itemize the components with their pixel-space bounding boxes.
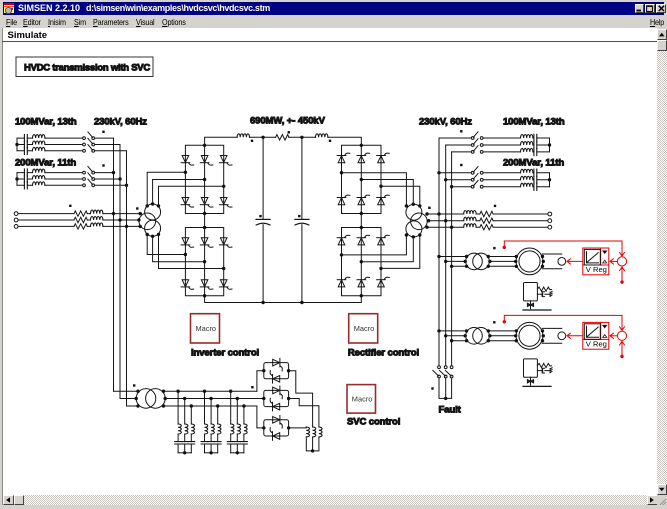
wire tcr pair3 left [257, 406, 264, 428]
node svc trf in2 [135, 397, 138, 400]
menu bar [3, 15, 664, 28]
rectifier bridge lower [337, 226, 389, 298]
filter bank 100MVar right [439, 132, 551, 156]
node mark 17 [251, 386, 253, 388]
wire phase3 upper [159, 186, 224, 206]
wire phase1 upper [147, 172, 185, 206]
node bus1 junction a right [437, 212, 440, 215]
fault switch 1 [433, 366, 441, 378]
wire phase1 lower right [342, 235, 407, 255]
node phase1 top circle right [405, 204, 408, 207]
branch 2a [204, 391, 206, 424]
wire bus2 right [445, 145, 447, 367]
svc phase line 2 [165, 398, 264, 400]
winding delta right [406, 221, 422, 237]
wire cap1 [262, 137, 264, 302]
node cap1 top [261, 136, 264, 139]
inverter bridge phase wires upper [146, 172, 224, 207]
node 2c [216, 404, 219, 407]
terminal b right [548, 219, 552, 223]
node bus3 tap 200MVar right [450, 185, 453, 188]
resistor b [74, 217, 87, 222]
wire c right [427, 226, 548, 228]
node phase2 top circle right [412, 203, 415, 206]
vertical scrollbar [657, 29, 667, 496]
wire a [18, 213, 140, 215]
svg-text:HVDC transmission with SVC: HVDC transmission with SVC [24, 63, 150, 74]
wire group1 star bar [178, 452, 191, 454]
terminal c [14, 225, 18, 229]
node mark 14 [493, 247, 495, 249]
converter transformer left [139, 204, 161, 236]
dc resistor [276, 135, 289, 140]
tcr reactor a [306, 427, 309, 437]
macro box svc control [347, 385, 376, 414]
svg-text:Inverter control: Inverter control [191, 348, 259, 359]
node svc trf out3 [162, 404, 165, 407]
right grid phase a [425, 211, 551, 217]
node 1b [183, 397, 186, 400]
inductor b right [464, 217, 476, 221]
node transformer c [139, 225, 142, 228]
title box HVDC transmission with SVC [16, 57, 153, 77]
wire phase2 lower [153, 236, 205, 261]
svg-text:Rectifier control: Rectifier control [348, 348, 419, 359]
rectifier bridge phase wires upper [342, 173, 422, 208]
svg-text:100MVar, 13th: 100MVar, 13th [503, 117, 565, 128]
wire tcr pair1 to reactor b [289, 371, 313, 427]
node bus3 junction c [125, 225, 128, 228]
node phase3 bottom circle [157, 233, 160, 236]
node phase2 bottom circle [151, 235, 154, 238]
macro box rectifier control [349, 314, 378, 343]
node mark 9 [298, 215, 300, 217]
svc phase line 3 [164, 405, 257, 407]
svc transformer winding 1 [136, 389, 156, 409]
node cap2 top [300, 136, 303, 139]
wire bus1 into svc trf [114, 390, 139, 392]
node 1a [176, 390, 179, 393]
capacitor cap1 [256, 219, 270, 225]
node bus2 tap 200MVar left [118, 177, 121, 180]
winding delta left [145, 220, 161, 236]
branch 1c [190, 406, 192, 424]
svg-text:230kV, 60Hz: 230kV, 60Hz [419, 117, 472, 128]
handle dot marks [69, 130, 496, 407]
node phase1 bottom circle [146, 233, 149, 236]
node svc trf in3 [136, 404, 139, 407]
inverter bridge upper [181, 144, 232, 216]
fault switch 2 [440, 366, 448, 378]
node group2 star [209, 451, 212, 454]
node mark 8 [259, 215, 261, 217]
wire phase1 upper right [342, 173, 407, 206]
node mark 19 [243, 405, 245, 407]
wire phase1 lower [147, 234, 185, 254]
branch 2c [217, 406, 219, 424]
tcr pair 3 [262, 416, 290, 441]
inductor a [91, 210, 103, 214]
filter bank 100MVar left [15, 132, 126, 155]
node transformer a [139, 212, 142, 215]
horizontal scrollbar [3, 495, 658, 506]
branch 1a [177, 391, 179, 424]
wire group3 star bar [231, 452, 244, 454]
converter transformer right [406, 204, 427, 237]
node transformer b right [427, 219, 430, 222]
node bus2 junction b [118, 218, 121, 221]
svc filter group 2 [201, 390, 221, 455]
node group3 star [236, 451, 239, 454]
node bus2 junction b right [444, 219, 447, 222]
node 3b [236, 397, 239, 400]
node bus1 tap 200MVar right [437, 171, 440, 174]
dc filter capacitor 2 [295, 137, 309, 302]
tcr pair 2 [262, 386, 290, 411]
wire cap2 [301, 137, 303, 302]
left grid source phase c [14, 223, 142, 229]
node 3c [242, 404, 245, 407]
wire bus3 right [451, 152, 453, 367]
svg-text:Fault: Fault [439, 405, 462, 416]
inductor c [91, 223, 103, 227]
branch 2b [210, 399, 212, 425]
wire b right [429, 220, 548, 222]
machine group 2 [437, 315, 626, 358]
right grid phase c [425, 224, 551, 230]
svg-text:200MVar, 11th: 200MVar, 11th [503, 157, 564, 168]
capacitor cap2 [295, 219, 309, 225]
node mark 3 [69, 205, 71, 207]
node cap2 bottom [300, 301, 303, 304]
node svc trf out2 [164, 397, 167, 400]
node mark 7 [288, 131, 290, 133]
dc filter capacitor 1 [256, 137, 270, 302]
wire group2 star bar [205, 452, 218, 454]
resistor a [74, 211, 87, 216]
node mark 4 [136, 207, 138, 209]
node phase2 bottom circle right [412, 235, 415, 238]
svg-text:SVC control: SVC control [347, 417, 400, 428]
node transformer b [137, 218, 140, 221]
terminal c right [548, 225, 552, 229]
node svc trf out1 [162, 390, 165, 393]
right grid phase b [427, 217, 552, 223]
svg-text:690MW, +- 450kV: 690MW, +- 450kV [250, 116, 326, 127]
fault branch [433, 366, 462, 416]
turbine block 2 [523, 359, 552, 387]
inductor b [91, 217, 103, 221]
winding primary left [139, 213, 156, 230]
node svc trf in1 [136, 390, 139, 393]
node mark 15 [493, 321, 495, 323]
tcr pair 1 [262, 358, 290, 383]
svg-text:Macro: Macro [352, 395, 373, 404]
svg-text:Macro: Macro [354, 324, 375, 333]
resistor c [74, 224, 87, 229]
wire phase3 upper right [381, 186, 420, 206]
wire tcr pair3 to reactor a [289, 426, 307, 429]
node phase3 bottom circle right [418, 233, 421, 236]
macro box inverter control [191, 314, 220, 343]
node phase1 bottom circle right [405, 233, 408, 236]
wire bus3 left [126, 151, 128, 406]
branch 3c [243, 406, 245, 424]
terminal b [14, 218, 18, 222]
node fault [444, 397, 447, 400]
node mark 16 [133, 384, 135, 386]
wire inverter bridges link [204, 214, 206, 228]
left grid source phase b [14, 217, 140, 223]
wire phase3 lower right [381, 235, 420, 268]
node phase1 top circle [146, 204, 149, 207]
smoothing inductor left [237, 134, 249, 138]
node mark 18 [431, 387, 433, 389]
wire tcr star [306, 437, 319, 451]
rectifier bridge upper [337, 144, 389, 216]
wire phase3 lower [159, 234, 224, 268]
node bus2 tap 200MVar right [444, 178, 447, 181]
filter bank 200MVar right [439, 167, 551, 191]
wire bus3 into svc trf [127, 405, 139, 407]
svg-text:Macro: Macro [196, 324, 217, 333]
resistor b right [480, 218, 493, 223]
node mark 6 [329, 140, 331, 142]
svc filter group 1 [175, 390, 195, 455]
node mark 1 [102, 131, 104, 133]
node bus3 tap 200MVar left [125, 184, 128, 187]
wire phase2 lower right [361, 237, 413, 262]
terminal a right [548, 212, 552, 216]
node bus1 tap 200MVar left [112, 171, 115, 174]
node mark 13 [494, 205, 496, 207]
terminal a [14, 212, 18, 216]
node 2b [209, 397, 212, 400]
node bus3 junction c right [450, 226, 453, 229]
wire b [18, 219, 139, 221]
left grid source phase a [14, 210, 142, 216]
node cap1 bottom [261, 301, 264, 304]
simulate menu row [3, 28, 657, 41]
svc transformer winding 2 [146, 389, 166, 409]
wire phase2 upper right [361, 180, 413, 205]
node transformer c right [425, 226, 428, 229]
dc link bottom rail [205, 296, 362, 304]
wire tcr pair1 left [257, 371, 264, 392]
branch 1b [184, 399, 186, 425]
node transformer a right [425, 212, 428, 215]
title bar [3, 2, 664, 15]
dc link top rail [205, 134, 362, 146]
node mark 5 [251, 140, 253, 142]
wire phase2 upper [153, 180, 205, 205]
resistor a right [480, 211, 493, 216]
node 1c [190, 404, 193, 407]
resistor c right [480, 225, 493, 230]
svg-text:200MVar, 11th: 200MVar, 11th [15, 157, 76, 168]
wire bus2 left [119, 145, 121, 399]
tcr reactor c [319, 427, 322, 437]
wire a right [427, 213, 548, 215]
wire dc plus [205, 137, 362, 146]
wire fault join [439, 378, 452, 398]
node mark 10 [428, 207, 430, 209]
winding primary right [411, 213, 428, 230]
wire bus1 left [113, 138, 115, 391]
svg-text:230kV, 60Hz: 230kV, 60Hz [94, 117, 147, 128]
node mark 2 [102, 164, 104, 166]
svc filter group 3 [227, 390, 247, 455]
svg-text:100MVar, 13th: 100MVar, 13th [15, 117, 77, 128]
inductor a right [464, 211, 476, 215]
svc coupling transformer [114, 389, 167, 409]
rectifier bridge phase wires lower [342, 233, 422, 268]
node phase2 top circle [151, 202, 154, 205]
inverter bridge lower [181, 226, 232, 298]
node mark 12 [460, 164, 462, 166]
node mark 11 [460, 130, 462, 132]
branch 3a [230, 391, 232, 424]
winding star left [145, 204, 161, 220]
svc phase line 1 [164, 390, 257, 392]
node bus1 junction a [112, 212, 115, 215]
node phase3 top circle [157, 204, 160, 207]
node 2a [203, 390, 206, 393]
inductor c right [464, 224, 476, 228]
wire rectifier bridges link [360, 214, 362, 228]
winding star right [406, 204, 422, 220]
node 3a [229, 390, 232, 393]
wire bus1 right [438, 138, 440, 367]
wire c [18, 225, 140, 227]
smoothing inductor right [316, 134, 328, 138]
branch 3b [236, 399, 238, 425]
node tcr star [311, 449, 314, 452]
inverter bridge phase wires lower [146, 233, 224, 269]
wire tcr pair2 to reactor c [289, 399, 319, 428]
wire dc minus [205, 296, 362, 302]
node phase3 top circle right [418, 204, 421, 207]
wire bus2 into svc trf [120, 398, 136, 400]
turbine block 1 [523, 283, 552, 311]
tcr reactor b [313, 427, 316, 437]
machine group 1 [437, 241, 626, 284]
fault switch 3 [445, 366, 453, 378]
node group1 star [183, 451, 186, 454]
filter bank 200MVar left [15, 166, 126, 189]
